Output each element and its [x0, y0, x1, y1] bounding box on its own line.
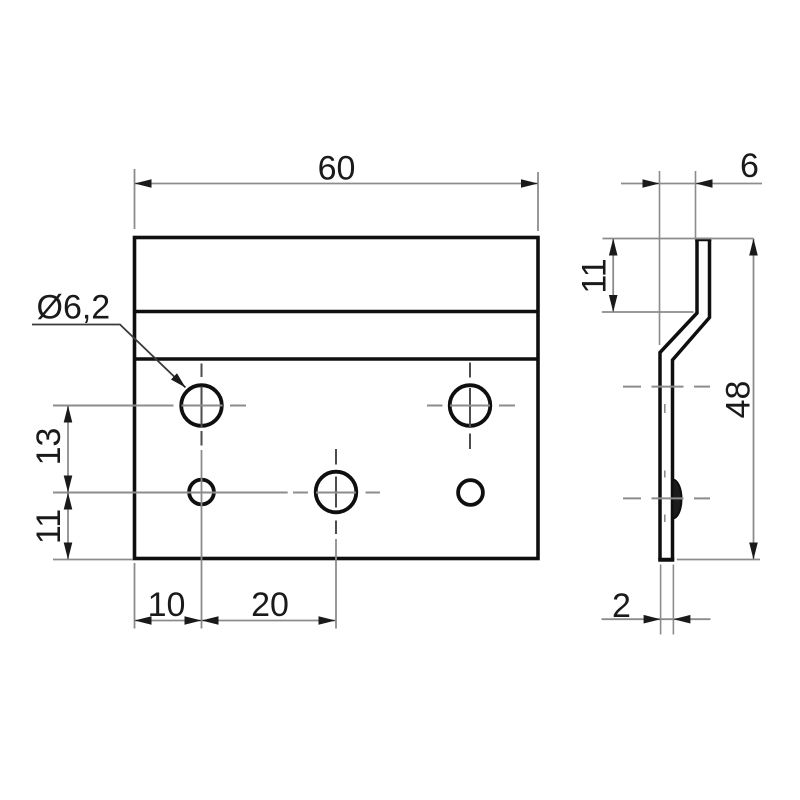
dimension 11 arrow up (side) [609, 239, 618, 256]
side view hole bulge [673, 480, 682, 519]
dimension 6 arrow right [696, 179, 713, 188]
svg-text:2: 2 [612, 587, 631, 625]
svg-text:60: 60 [318, 150, 356, 188]
svg-text:11: 11 [576, 258, 614, 293]
centerline horizontal lower row / extension line 13-11 [53, 492, 380, 494]
centerline horizontal hole top-right [427, 405, 515, 407]
dimension 11 arrow down [64, 543, 73, 560]
dimension 10-20 line [135, 620, 336, 622]
svg-text:6: 6 [740, 147, 759, 185]
dimension 10 arrow right [185, 616, 202, 625]
dimension 10-20 extension line left [134, 563, 136, 629]
dimension 6 arrow left [643, 179, 660, 188]
dimension 13-11 extension line bottom [53, 559, 133, 561]
side view top end cap [695, 238, 711, 242]
leader line Ø6,2 [32, 325, 186, 388]
side view vertical axis dashes [664, 404, 666, 522]
side view profile right contour [673, 240, 710, 560]
dimension 11 arrow down (side) [609, 295, 618, 312]
centerline vertical hole top-right [469, 363, 471, 450]
centerline vertical hole top-left [201, 364, 203, 446]
hole middle Ø6,2 [316, 472, 357, 513]
dimension 2 extension line left [660, 565, 662, 635]
dimension 20 arrow left [202, 616, 219, 625]
leader arrowhead Ø6,2 [171, 373, 186, 387]
dimension 60 extension line right [537, 172, 539, 231]
dimension 13-11 line [67, 406, 69, 560]
dimension 10-20 extension line right (below middle hole) [335, 539, 337, 629]
dimension 2 arrow right [673, 615, 690, 624]
dimension 11-48 extension line top [603, 238, 754, 240]
svg-text:13: 13 [30, 428, 68, 466]
centerline vertical hole middle [335, 449, 337, 534]
dimension 13 arrow down [64, 476, 73, 493]
hole top-right Ø6,2 [450, 385, 491, 426]
dimension 13-11 extension line top [53, 405, 168, 407]
hole top-left Ø6,2 [181, 385, 222, 426]
small hole lower-left [189, 480, 214, 505]
dimension 2 line [602, 618, 711, 620]
dimension 48 arrow down [749, 543, 758, 560]
side view profile left contour [660, 240, 697, 560]
dimension 6 extension line left [659, 171, 661, 345]
dimension 11 extension line bottom [602, 311, 694, 313]
dimension 60 line [135, 183, 539, 185]
dimension 2 extension line right [672, 565, 674, 635]
side view centerline lower hole row [623, 497, 710, 499]
dimension 48 extension line bottom [677, 559, 760, 561]
dimension 60 arrow left [135, 179, 152, 188]
dimension 13 arrow up [64, 406, 73, 423]
side view bottom end cap [658, 558, 674, 562]
upper bend line [135, 310, 539, 313]
dimension 48 arrow up [749, 239, 758, 256]
dimension 60 extension line left [134, 169, 136, 229]
front view plate outline [135, 238, 539, 559]
svg-text:Ø6,2: Ø6,2 [37, 289, 111, 327]
lower bend line [135, 357, 539, 360]
svg-text:11: 11 [30, 509, 68, 544]
dimension 11 line (side) [612, 239, 614, 313]
dimension 20 arrow right [319, 616, 336, 625]
side view centerline upper hole row [623, 386, 710, 388]
dimension 2 arrow left [644, 615, 661, 624]
svg-text:10: 10 [148, 586, 186, 624]
small hole lower-right [458, 480, 483, 505]
dimension 6 line [621, 183, 762, 185]
dimension 60 arrow right [521, 179, 538, 188]
centerline horizontal hole top-left [53, 405, 246, 407]
dimension 10 arrow left [135, 616, 152, 625]
svg-text:48: 48 [720, 381, 758, 419]
dimension 6 extension line right [695, 171, 697, 239]
dimension 11 arrow up [64, 493, 73, 510]
dimension 10-20 extension line middle (through small hole) [201, 450, 203, 629]
dimension 48 line [753, 239, 755, 560]
svg-text:20: 20 [251, 586, 289, 624]
